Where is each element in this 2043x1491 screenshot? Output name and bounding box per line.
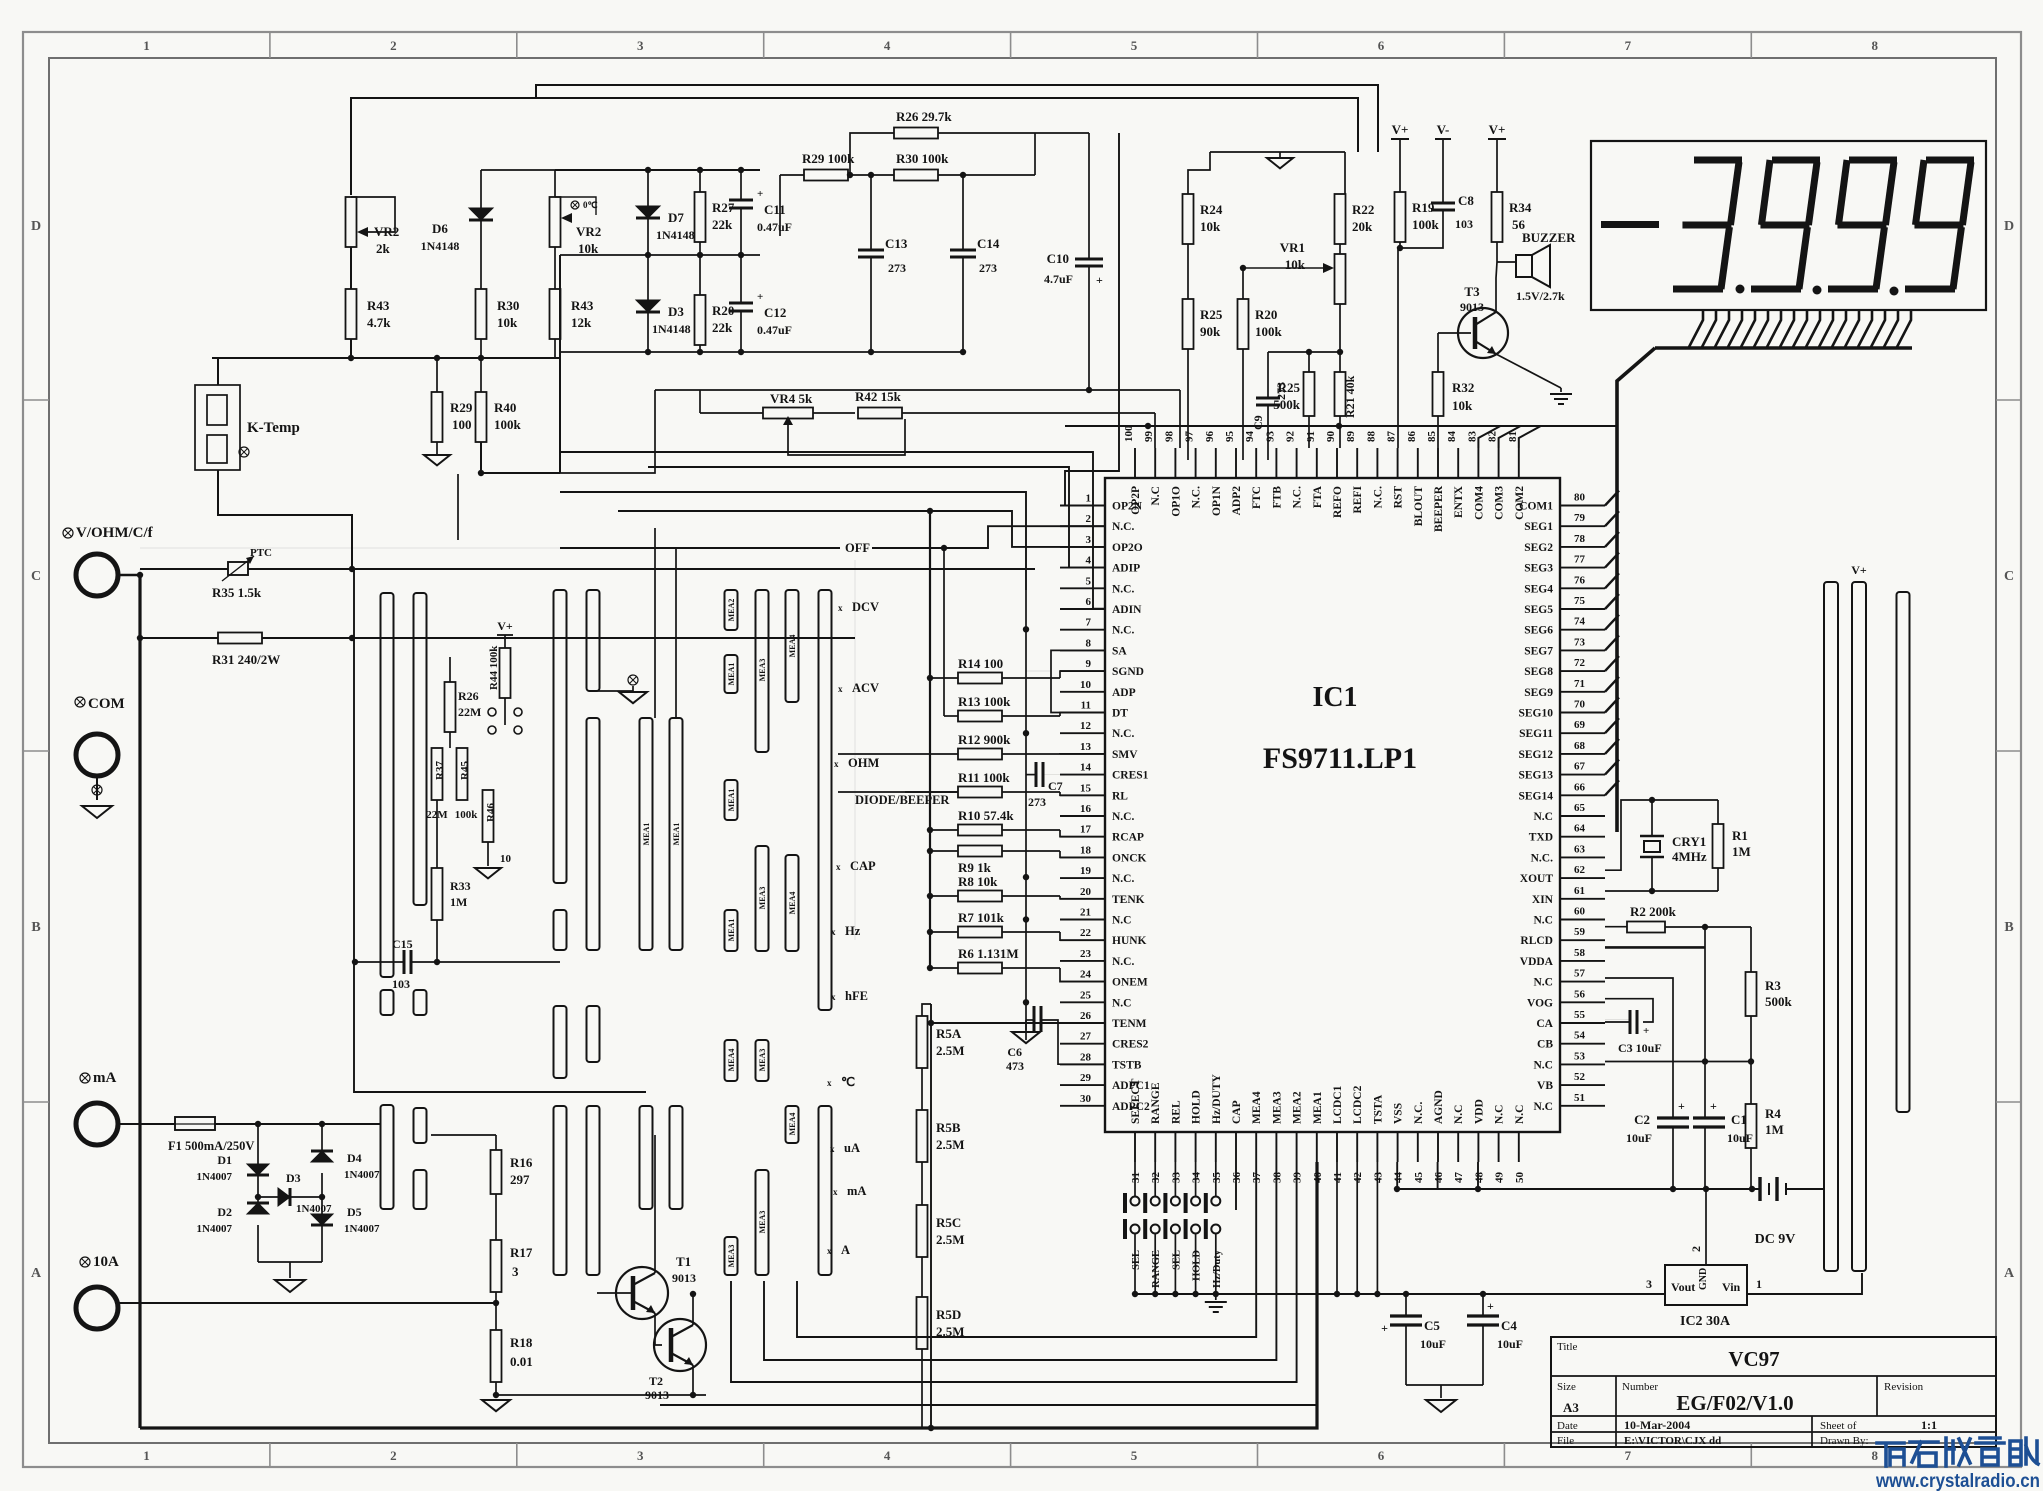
wire T2 emitter xyxy=(692,1365,694,1395)
svg-text:5: 5 xyxy=(1131,38,1138,53)
title block outline xyxy=(1551,1337,1996,1447)
wire R14 to pin9 xyxy=(1060,671,1105,678)
svg-text:85: 85 xyxy=(1426,431,1438,443)
svg-text:R4: R4 xyxy=(1765,1106,1781,1121)
svg-text:3: 3 xyxy=(1086,534,1092,546)
svg-text:27: 27 xyxy=(1080,1031,1092,1043)
svg-text:51: 51 xyxy=(1574,1092,1585,1104)
svg-text:C11: C11 xyxy=(764,202,786,217)
svg-text:Vout: Vout xyxy=(1671,1280,1695,1294)
svg-text:DIODE/BEEPER: DIODE/BEEPER xyxy=(855,793,950,807)
wire T1 collector xyxy=(654,1135,656,1273)
jack V/OHM terminal xyxy=(63,528,73,538)
svg-text:Title: Title xyxy=(1557,1341,1578,1353)
svg-text:N.C.: N.C. xyxy=(1413,1102,1425,1124)
svg-text:11: 11 xyxy=(1081,700,1091,712)
diode D3 1N4007 xyxy=(255,1194,261,1200)
wire VDDA xyxy=(1605,946,1705,949)
svg-text:x: x xyxy=(827,1078,832,1088)
svg-text:78: 78 xyxy=(1574,533,1586,545)
svg-text:+: + xyxy=(1643,1025,1649,1037)
svg-text:R46: R46 xyxy=(485,803,497,822)
svg-text:0.01: 0.01 xyxy=(510,1354,533,1369)
wire midcol 1 xyxy=(654,528,656,718)
switch region ground xyxy=(593,686,633,691)
svg-text:R22: R22 xyxy=(1352,202,1374,217)
svg-text:MEA4: MEA4 xyxy=(788,635,797,658)
potentiometer VR2 10k xyxy=(550,197,561,247)
resistor R5B 2.5M xyxy=(917,1110,928,1162)
svg-text:R32: R32 xyxy=(1452,380,1474,395)
svg-text:52: 52 xyxy=(1574,1071,1586,1083)
svg-text:1N4148: 1N4148 xyxy=(421,239,460,253)
svg-text:100k: 100k xyxy=(455,809,479,821)
svg-text:CRES1: CRES1 xyxy=(1112,770,1149,782)
wire ref box left xyxy=(559,255,561,473)
diode D6 1N4148 xyxy=(480,170,482,208)
LCD minus sign xyxy=(1601,221,1659,228)
svg-text:22: 22 xyxy=(1080,927,1092,939)
wire bus 492 xyxy=(560,492,1026,590)
jack 10A terminal xyxy=(80,1257,90,1267)
svg-text:VDDA: VDDA xyxy=(1520,956,1554,968)
wire IC2 Vout xyxy=(1138,1293,1665,1295)
svg-text:473: 473 xyxy=(1006,1059,1024,1073)
wire T2 collector xyxy=(692,1294,694,1325)
svg-text:87: 87 xyxy=(1386,431,1398,443)
wire ref bottom rail xyxy=(560,351,963,353)
svg-text:MEA1: MEA1 xyxy=(727,789,736,812)
svg-text:48: 48 xyxy=(1473,1172,1485,1184)
svg-text:7: 7 xyxy=(1625,1448,1632,1463)
resistor R25 90k xyxy=(1183,299,1194,349)
wire TENM riser xyxy=(931,1022,1105,1024)
svg-text:103: 103 xyxy=(1455,217,1473,231)
ground pushbutton rail xyxy=(1213,1291,1219,1297)
wire ladder pin links xyxy=(1060,671,1105,678)
wire switch feeders xyxy=(457,474,459,540)
LCD display outline xyxy=(1591,141,1986,310)
svg-text:56: 56 xyxy=(1574,988,1586,1000)
svg-text:10: 10 xyxy=(1080,679,1092,691)
svg-text:MEA2: MEA2 xyxy=(727,599,736,622)
svg-text:REL: REL xyxy=(1170,1100,1182,1124)
capacitor C12 0.47uF xyxy=(740,255,742,303)
svg-text:10uF: 10uF xyxy=(1420,1337,1446,1351)
svg-text:K-Temp: K-Temp xyxy=(247,420,300,436)
svg-text:T2: T2 xyxy=(649,1374,663,1388)
svg-text:88: 88 xyxy=(1365,431,1377,443)
svg-text:273: 273 xyxy=(1028,795,1046,809)
svg-text:MEA1: MEA1 xyxy=(1312,1091,1324,1124)
svg-text:SEL: SEL xyxy=(1131,1250,1142,1270)
svg-text:N.C.: N.C. xyxy=(1112,625,1134,637)
svg-text:273: 273 xyxy=(979,261,997,275)
wire MEA1 route xyxy=(660,1162,1317,1405)
svg-text:73: 73 xyxy=(1574,636,1586,648)
frame column ticks bottom xyxy=(269,1443,271,1467)
wire CAP route xyxy=(1235,1162,1237,1210)
wire LCDC2 drop xyxy=(1356,1162,1358,1294)
svg-text:R31 240/2W: R31 240/2W xyxy=(212,652,280,667)
svg-text:R5C: R5C xyxy=(936,1215,961,1230)
svg-text:C7: C7 xyxy=(1048,779,1063,793)
jack mA terminal xyxy=(80,1073,90,1083)
svg-text:C14: C14 xyxy=(977,236,1000,251)
capacitor C15 103 xyxy=(355,961,404,963)
svg-text:99: 99 xyxy=(1143,431,1155,443)
svg-text:FTC: FTC xyxy=(1251,486,1263,509)
svg-text:T3: T3 xyxy=(1464,284,1480,299)
wire ref mid rail xyxy=(560,254,760,256)
wire R40 bottom xyxy=(481,442,560,473)
svg-text:93: 93 xyxy=(1264,431,1276,443)
rotary switch right bars xyxy=(1824,582,1838,1271)
svg-text:C: C xyxy=(31,569,41,584)
svg-text:C4: C4 xyxy=(1501,1318,1517,1333)
wire VOG drop xyxy=(1605,978,1673,1112)
wire IC2 Vin xyxy=(1747,1273,1862,1294)
resistor R40 100k xyxy=(480,358,482,392)
svg-text:20: 20 xyxy=(1080,886,1092,898)
svg-text:62: 62 xyxy=(1574,864,1586,876)
svg-text:1N4148: 1N4148 xyxy=(656,228,695,242)
LCD digit 9 (3) xyxy=(1926,157,1974,164)
svg-text:10-Mar-2004: 10-Mar-2004 xyxy=(1624,1418,1690,1432)
wire bus 511 xyxy=(618,511,1105,547)
svg-text:10k: 10k xyxy=(1452,398,1473,413)
resistor R33 1M xyxy=(436,800,438,868)
pushbutton HOLD xyxy=(1195,1162,1197,1196)
svg-text:24: 24 xyxy=(1080,969,1092,981)
svg-text:10k: 10k xyxy=(578,241,599,256)
svg-text:R18: R18 xyxy=(510,1335,533,1350)
svg-text:42: 42 xyxy=(1352,1172,1364,1184)
svg-text:84: 84 xyxy=(1446,431,1458,443)
svg-text:R10 57.4k: R10 57.4k xyxy=(958,808,1014,823)
svg-text:100: 100 xyxy=(1123,425,1135,442)
svg-text:www.crystalradio.cn: www.crystalradio.cn xyxy=(1875,1471,2040,1491)
svg-text:43: 43 xyxy=(1372,1172,1384,1184)
svg-text:SEG4: SEG4 xyxy=(1524,583,1553,595)
svg-text:REFO: REFO xyxy=(1332,486,1344,518)
svg-text:22M: 22M xyxy=(458,705,481,719)
wire XOUT loop top xyxy=(1605,800,1718,870)
svg-text:10: 10 xyxy=(500,853,512,865)
svg-text:100k: 100k xyxy=(494,417,522,432)
svg-text:R7 101k: R7 101k xyxy=(958,910,1005,925)
svg-text:MEA3: MEA3 xyxy=(758,887,767,910)
svg-text:4: 4 xyxy=(884,1448,891,1463)
svg-text:ACV: ACV xyxy=(852,681,879,695)
svg-text:R43: R43 xyxy=(571,298,594,313)
svg-text:COM2: COM2 xyxy=(1514,486,1526,520)
wire VDD drop xyxy=(1477,1162,1479,1189)
wire R5B-R5C xyxy=(921,1162,923,1205)
svg-text:VR2: VR2 xyxy=(576,224,601,239)
svg-text:19: 19 xyxy=(1080,865,1092,877)
svg-text:N.C: N.C xyxy=(1150,486,1162,506)
LCD decimal points xyxy=(1736,285,1745,294)
svg-text:ENTX: ENTX xyxy=(1453,485,1465,518)
wire VSS drop xyxy=(1396,1162,1398,1189)
resistor R16 297 xyxy=(431,1134,496,1136)
svg-text:uA: uA xyxy=(844,1141,860,1155)
svg-text:2.5M: 2.5M xyxy=(936,1137,965,1152)
svg-text:36: 36 xyxy=(1231,1172,1243,1184)
watermark logo blocks xyxy=(1877,1438,2038,1466)
svg-text:90k: 90k xyxy=(1200,324,1221,339)
wire V/OHM to switch xyxy=(118,574,140,576)
svg-text:VB: VB xyxy=(1537,1080,1553,1092)
wire IC2 GND up xyxy=(1705,1189,1707,1265)
wire XIN bottom xyxy=(1605,890,1718,892)
svg-text:89: 89 xyxy=(1345,431,1357,443)
svg-text:3: 3 xyxy=(637,38,644,53)
resistor R43 4.7k xyxy=(346,289,357,339)
svg-text:26: 26 xyxy=(1080,1010,1092,1022)
svg-text:68: 68 xyxy=(1574,740,1586,752)
svg-text:103: 103 xyxy=(392,977,410,991)
svg-text:D4: D4 xyxy=(347,1151,362,1165)
svg-text:x: x xyxy=(831,992,836,1002)
svg-text:R21 40k: R21 40k xyxy=(1343,375,1357,418)
svg-text:B: B xyxy=(2004,920,2013,935)
svg-text:R11 100k: R11 100k xyxy=(958,770,1010,785)
svg-text:8: 8 xyxy=(1086,637,1092,649)
svg-text:SEG8: SEG8 xyxy=(1524,666,1553,678)
switch box outline right xyxy=(854,560,856,940)
svg-text:ADP: ADP xyxy=(1112,687,1136,699)
svg-text:8: 8 xyxy=(1872,1448,1879,1463)
svg-text:50: 50 xyxy=(1514,1172,1526,1184)
svg-text:20k: 20k xyxy=(1352,219,1373,234)
svg-text:2k: 2k xyxy=(376,241,391,256)
LCD digit 3 xyxy=(1694,157,1742,164)
wire com bus 548 xyxy=(140,547,618,549)
svg-text:N.C: N.C xyxy=(1534,915,1554,927)
LCD connector thick bus xyxy=(1655,346,1912,350)
svg-text:mA: mA xyxy=(847,1184,866,1198)
svg-text:75: 75 xyxy=(1574,595,1586,607)
svg-text:SEG1: SEG1 xyxy=(1524,521,1553,533)
rotary switch wafer bars xyxy=(381,593,394,977)
svg-text:R33: R33 xyxy=(450,879,471,893)
svg-text:D2: D2 xyxy=(217,1205,232,1219)
frame row ticks right xyxy=(1996,399,2021,401)
svg-text:+: + xyxy=(1487,1299,1494,1313)
svg-text:TENM: TENM xyxy=(1112,1018,1147,1030)
svg-text:90: 90 xyxy=(1325,431,1337,443)
ground NC bus xyxy=(1025,1020,1027,1030)
svg-text:MEA1: MEA1 xyxy=(727,663,736,686)
svg-text:N.C.: N.C. xyxy=(1112,521,1134,533)
svg-text:4.7uF: 4.7uF xyxy=(1044,272,1073,286)
wire power bus 1189 xyxy=(1397,1188,1760,1190)
svg-text:N.C.: N.C. xyxy=(1112,583,1134,595)
svg-text:x: x xyxy=(830,1144,835,1154)
svg-text:6: 6 xyxy=(1378,1448,1385,1463)
wire K-Temp top xyxy=(217,358,219,385)
svg-text:5: 5 xyxy=(1086,575,1092,587)
svg-text:16: 16 xyxy=(1080,803,1092,815)
svg-text:BEEPER: BEEPER xyxy=(1433,485,1445,532)
wire temp node bus xyxy=(212,357,560,359)
ground R46 xyxy=(487,842,489,866)
svg-text:65: 65 xyxy=(1574,802,1586,814)
svg-text:500k: 500k xyxy=(1765,994,1793,1009)
svg-text:OP2P: OP2P xyxy=(1130,486,1142,515)
svg-text:x: x xyxy=(827,1246,832,1256)
svg-text:30: 30 xyxy=(1080,1093,1092,1105)
svg-text:2.5M: 2.5M xyxy=(936,1043,965,1058)
wire R43 to node xyxy=(350,339,352,358)
svg-text:55: 55 xyxy=(1574,1009,1586,1021)
svg-text:SMV: SMV xyxy=(1112,749,1138,761)
svg-text:1N4007: 1N4007 xyxy=(344,1169,380,1181)
battery DC 9V xyxy=(1758,1177,1761,1201)
svg-text:12: 12 xyxy=(1080,720,1092,732)
diode D1 1N4007 xyxy=(257,1124,259,1164)
svg-text:A: A xyxy=(2004,1266,2015,1281)
svg-text:21: 21 xyxy=(1080,907,1091,919)
svg-text:RLCD: RLCD xyxy=(1520,935,1553,947)
resistor R46 10 xyxy=(483,790,494,842)
svg-text:MEA4: MEA4 xyxy=(788,1113,797,1136)
svg-text:MEA1: MEA1 xyxy=(672,823,681,846)
svg-text:D: D xyxy=(2004,219,2014,234)
wire MEA4 route xyxy=(797,1162,1256,1337)
LCD pin hatch xyxy=(1689,310,1703,347)
svg-text:D: D xyxy=(31,219,41,234)
svg-text:MEA1: MEA1 xyxy=(642,823,651,846)
diode D5 1N4007 xyxy=(311,1214,333,1225)
svg-text:83: 83 xyxy=(1466,431,1478,443)
svg-text:1N4148: 1N4148 xyxy=(652,322,691,336)
svg-text:94: 94 xyxy=(1244,431,1256,443)
svg-text:14: 14 xyxy=(1080,762,1092,774)
resistor R29 100 xyxy=(436,358,438,392)
wire OFF to pin2 xyxy=(560,547,840,549)
wire midcol 2 xyxy=(675,548,677,718)
ground diode bridge xyxy=(258,1261,322,1263)
svg-text:LCDC2: LCDC2 xyxy=(1352,1085,1364,1124)
svg-text:ADP2: ADP2 xyxy=(1231,486,1243,516)
svg-text:10k: 10k xyxy=(1285,257,1306,272)
svg-text:R14 100: R14 100 xyxy=(958,656,1003,671)
svg-text:Date: Date xyxy=(1557,1420,1578,1432)
capacitor C7 273 xyxy=(1026,774,1036,776)
svg-text:+: + xyxy=(1381,1321,1388,1335)
svg-text:R16: R16 xyxy=(510,1155,533,1170)
svg-text:D3: D3 xyxy=(286,1171,301,1185)
svg-text:R25: R25 xyxy=(1200,307,1223,322)
wire bus 467 xyxy=(648,467,1105,568)
capacitor C8 103 xyxy=(1442,139,1444,203)
resistor R17 3 xyxy=(495,1194,497,1240)
svg-text:R45: R45 xyxy=(459,761,471,780)
svg-text:SEG2: SEG2 xyxy=(1524,542,1553,554)
svg-text:ADIP: ADIP xyxy=(1112,563,1140,575)
wire VR2-R43 xyxy=(350,247,352,289)
wire SA-DT link xyxy=(1051,650,1105,712)
svg-text:37: 37 xyxy=(1251,1172,1263,1184)
svg-text:32: 32 xyxy=(1150,1172,1162,1184)
svg-text:COM4: COM4 xyxy=(1473,486,1485,520)
svg-text:OHM: OHM xyxy=(848,756,879,770)
svg-text:SEG14: SEG14 xyxy=(1518,790,1553,802)
diode D3 1N4148 xyxy=(636,300,660,312)
svg-text:Size: Size xyxy=(1557,1381,1576,1393)
svg-text:ONCK: ONCK xyxy=(1112,852,1147,864)
svg-text:31: 31 xyxy=(1130,1172,1142,1183)
wire R5D bottom xyxy=(921,1349,923,1428)
LCD digit 9 (2) xyxy=(1849,157,1897,164)
svg-text:R26 29.7k: R26 29.7k xyxy=(896,109,952,124)
svg-text:9013: 9013 xyxy=(645,1388,669,1402)
wire ref col left xyxy=(779,175,781,236)
svg-text:hFE: hFE xyxy=(845,989,868,1003)
svg-text:BUZZER: BUZZER xyxy=(1522,230,1576,245)
svg-text:VR2: VR2 xyxy=(374,224,399,239)
svg-text:MEA3: MEA3 xyxy=(758,1211,767,1234)
wire T3 collector xyxy=(1496,262,1497,312)
resistor R22 20k xyxy=(1344,152,1346,194)
svg-text:7: 7 xyxy=(1625,38,1632,53)
svg-text:x: x xyxy=(833,1187,838,1197)
svg-text:100k: 100k xyxy=(1412,217,1440,232)
svg-text:C10: C10 xyxy=(1047,251,1069,266)
svg-text:x: x xyxy=(838,603,843,613)
svg-text:TXD: TXD xyxy=(1529,832,1553,844)
wire R5A-R5B xyxy=(921,1068,923,1110)
resistor R43 12k xyxy=(550,289,561,339)
diode D4 1N4007 xyxy=(321,1124,323,1162)
svg-text:TENK: TENK xyxy=(1112,894,1145,906)
svg-text:CRY1: CRY1 xyxy=(1672,834,1706,849)
wire ref rail drop left xyxy=(1188,152,1210,194)
svg-text:28: 28 xyxy=(1080,1051,1092,1063)
svg-text:MEA3: MEA3 xyxy=(758,1049,767,1072)
capacitor C1 10uF xyxy=(1704,1112,1706,1118)
ground below R29 xyxy=(436,442,438,455)
svg-text:+: + xyxy=(1096,273,1103,287)
svg-text:25: 25 xyxy=(1080,989,1092,1001)
svg-text:C8: C8 xyxy=(1458,193,1474,208)
capacitor C3 10uF xyxy=(1629,1010,1632,1034)
svg-text:DC 9V: DC 9V xyxy=(1755,1232,1796,1247)
svg-text:R34: R34 xyxy=(1509,200,1532,215)
resistor R9 1k xyxy=(958,846,1002,857)
svg-text:R17: R17 xyxy=(510,1245,533,1260)
svg-text:MEA3: MEA3 xyxy=(758,659,767,682)
svg-text:10uF: 10uF xyxy=(1626,1131,1652,1145)
svg-text:96: 96 xyxy=(1204,431,1216,443)
svg-text:V+: V+ xyxy=(1489,122,1506,137)
resistor R31 240/2W xyxy=(140,637,218,639)
svg-text:10uF: 10uF xyxy=(1497,1337,1523,1351)
capacitor C13 273 xyxy=(870,175,872,250)
svg-text:70: 70 xyxy=(1574,699,1586,711)
svg-text:C9: C9 xyxy=(1251,415,1265,430)
svg-text:CAP: CAP xyxy=(1231,1100,1243,1124)
svg-text:46: 46 xyxy=(1433,1172,1445,1184)
capacitor C4 10uF xyxy=(1482,1294,1484,1316)
svg-text:REFI: REFI xyxy=(1352,485,1364,513)
svg-text:COM: COM xyxy=(88,696,125,712)
svg-text:91: 91 xyxy=(1305,431,1317,442)
svg-text:R1: R1 xyxy=(1732,828,1748,843)
